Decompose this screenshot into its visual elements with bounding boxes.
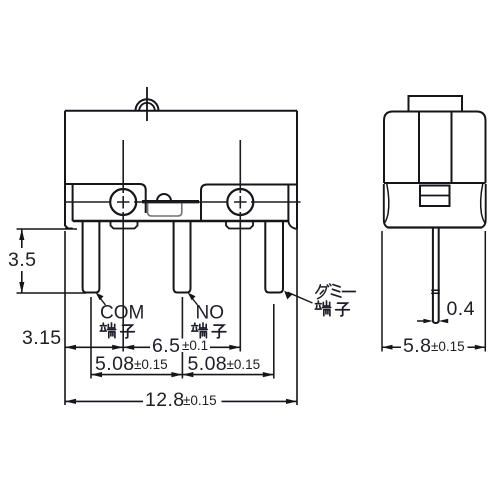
ext line 3.5 top [17, 228, 78, 230]
bottom strip foot [65, 228, 73, 230]
vertical centerline hole1 [122, 140, 124, 352]
3.5 dimension line [21, 229, 23, 293]
label dummy tanshi [315, 301, 349, 316]
side body outline [384, 112, 486, 184]
side left chamfer sliver [384, 184, 389, 224]
arrow 6.5 left [123, 345, 134, 350]
arrow 5.08b left [182, 372, 193, 377]
svg-text:0.4: 0.4 [447, 298, 475, 320]
plunger centerline [146, 87, 148, 121]
arrow 0.4 right-pointing [423, 319, 433, 324]
leader arrow dummy [284, 291, 292, 300]
svg-text:±0.15: ±0.15 [431, 339, 465, 354]
ext line 3.5 bottom [17, 292, 87, 294]
side button [409, 96, 463, 112]
dummy terminal [265, 221, 283, 293]
arrow 12.8 right [286, 399, 297, 404]
arrow 12.8 left [65, 399, 76, 404]
vertical centerline hole2 [239, 140, 241, 352]
svg-text:6.5: 6.5 [152, 335, 180, 357]
leader arrow NO [188, 293, 196, 301]
side right lower edge [482, 184, 486, 228]
arrow 5.8 left [382, 345, 393, 350]
svg-text:±0.15: ±0.15 [183, 393, 217, 408]
label dummy katakana [316, 284, 356, 299]
svg-text:COM: COM [100, 303, 144, 324]
12.8 dimension line [65, 400, 297, 402]
0.4 dim lines [417, 320, 448, 322]
right body extension line [296, 229, 298, 405]
body bottom line [73, 220, 289, 222]
5.8 ext line right [484, 231, 486, 352]
right foot arc [288, 222, 296, 230]
svg-text:NO: NO [196, 303, 225, 324]
arrow 5.08b right [263, 372, 274, 377]
side bottom [388, 226, 483, 228]
side inner rect mid line [420, 195, 450, 197]
front view body right edge [296, 111, 298, 229]
lever thick line [142, 200, 199, 203]
svg-text:±0.1: ±0.1 [182, 338, 208, 353]
side right chamfer sliver [481, 184, 486, 224]
3.15 dimension line [65, 346, 123, 348]
svg-text:3.5: 3.5 [8, 249, 36, 271]
arrow 3.5 down [19, 282, 24, 293]
protrusion under boss1 [111, 221, 138, 229]
horizontal centerline through holes [65, 201, 301, 203]
dummy terminal centerline [273, 304, 275, 379]
arrow 0.4 left-pointing [439, 319, 449, 324]
plunger outer arc [136, 99, 159, 110]
side terminal [433, 228, 439, 324]
mounting hole H2 [227, 189, 253, 215]
protrusion under boss2 [226, 221, 253, 229]
side inner rect [420, 186, 450, 207]
front view body left edge [65, 111, 73, 229]
label COM tanshi [100, 323, 134, 338]
actuator dome [157, 194, 171, 201]
leader arrow COM [96, 293, 104, 301]
svg-text:5.08: 5.08 [188, 353, 228, 375]
side left lower edge [384, 184, 388, 228]
svg-text:±0.15: ±0.15 [227, 357, 261, 372]
arrow 3.15 left [65, 345, 76, 350]
arrow 6.5 right [229, 345, 240, 350]
5.08 dimension line [91, 374, 274, 376]
side inner vertical left [418, 112, 420, 184]
side seam [384, 182, 486, 184]
arrow 3.5 up [19, 229, 24, 240]
label NO tanshi [192, 323, 226, 338]
COM terminal [83, 221, 100, 293]
arrow 5.08a right [171, 372, 182, 377]
arrow 3.15 right [112, 345, 123, 350]
svg-text:3.15: 3.15 [22, 327, 62, 349]
NO terminal [174, 221, 191, 293]
plunger inner arc [139, 103, 155, 111]
leader line dummy [288, 292, 313, 303]
NO terminal centerline [181, 297, 183, 379]
svg-text:5.08: 5.08 [95, 353, 135, 375]
boss2 top and seam right segment [201, 185, 297, 222]
side inner vertical right [451, 112, 453, 184]
arrow 5.08a left [91, 372, 102, 377]
svg-text:12.8: 12.8 [145, 389, 185, 411]
svg-text:5.8: 5.8 [403, 335, 431, 357]
5.8 dim line [382, 346, 485, 348]
left strip vertical [72, 184, 74, 221]
front view body top edge [65, 110, 297, 112]
COM terminal centerline [90, 297, 92, 379]
arrow 5.8 right [475, 345, 486, 350]
terminal break ticks [431, 290, 440, 293]
slot under dome (light) [148, 204, 182, 217]
leader line NO [192, 298, 198, 305]
svg-text:±0.15: ±0.15 [134, 357, 168, 372]
seam line left segment / boss1 top [65, 184, 146, 213]
6.5 dimension line [123, 346, 240, 348]
inner right vertical [287, 186, 289, 222]
left body extension line [64, 231, 66, 405]
5.8 ext line left [381, 231, 383, 352]
mounting hole H1 [110, 189, 136, 215]
leader line COM [100, 298, 106, 305]
